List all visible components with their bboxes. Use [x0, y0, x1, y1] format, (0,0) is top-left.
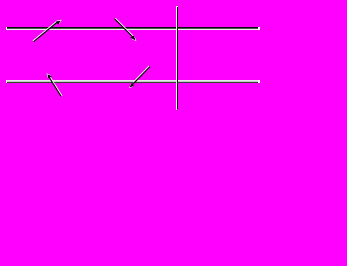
wire: lower horizontal line	[6, 80, 260, 83]
wire: upper horizontal line	[6, 27, 260, 30]
wire: vertical line	[176, 6, 178, 110]
arrow A2 (points down-right, crosses upper line)	[115, 18, 137, 41]
arrow A3 (points up-left, crosses lower line)	[46, 73, 62, 96]
arrow A4 (points down-left, crosses lower line)	[129, 66, 150, 88]
arrow A1 (points up-right, crosses upper line)	[33, 20, 62, 42]
